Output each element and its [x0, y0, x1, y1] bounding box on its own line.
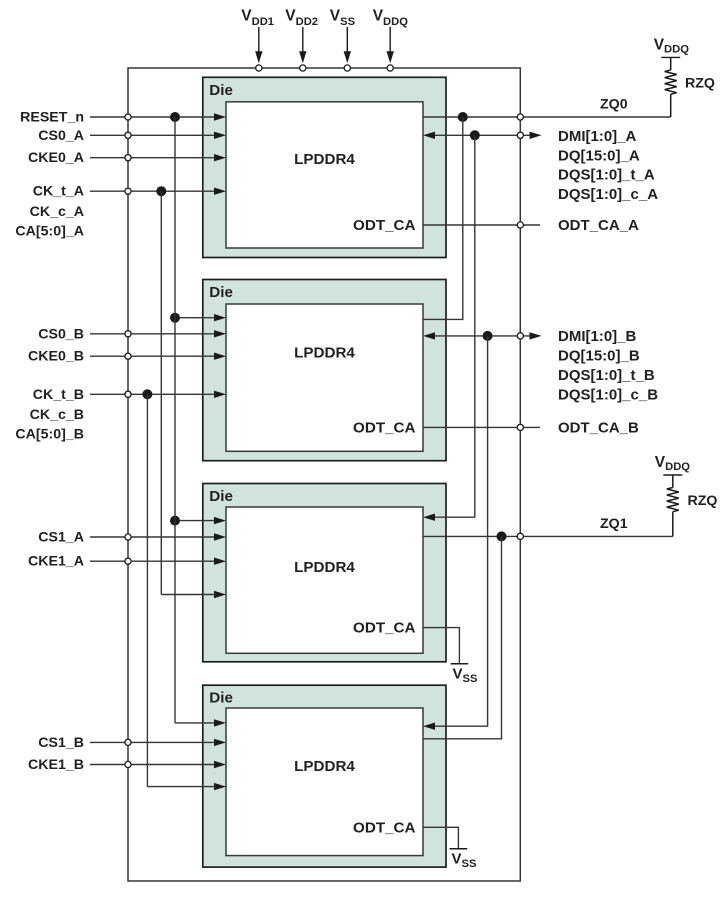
junction CK_A: [156, 186, 166, 196]
wire CKE1_B: [90, 761, 226, 768]
svg-text:LPDDR4: LPDDR4: [294, 345, 355, 362]
svg-text:RZQ: RZQ: [688, 493, 718, 509]
pin CS0_B: [125, 331, 131, 337]
svg-text:ODT_CA: ODT_CA: [353, 217, 415, 234]
wire DQ_B vertical to die 4: [423, 336, 488, 730]
LPDDR4 chip U4: [226, 708, 423, 856]
svg-text:ODT_CA_B: ODT_CA_B: [558, 419, 639, 436]
svg-text:CKE1_B: CKE1_B: [28, 757, 84, 773]
wire CS0_B: [90, 330, 226, 337]
wire DQ_A vertical to die 3: [423, 135, 475, 521]
svg-text:VSS: VSS: [330, 8, 356, 29]
svg-text:VSS: VSS: [452, 851, 477, 870]
wire ZQ1 vertical to die 4: [423, 536, 502, 738]
svg-text:VDD2: VDD2: [285, 8, 318, 29]
wire ZQ1 net: [423, 535, 673, 537]
svg-text:CKE1_A: CKE1_A: [28, 554, 84, 570]
pin RESET_n: [125, 114, 131, 120]
wire RESET_n vertical distribution: [174, 117, 176, 723]
svg-text:Die: Die: [209, 82, 233, 99]
wire CS1_A: [90, 533, 226, 540]
junction RESET_n die 1: [170, 112, 180, 122]
svg-text:CS0_B: CS0_B: [38, 326, 84, 342]
junction ZQ1: [497, 531, 507, 541]
svg-text:DQS[1:0]_t_B: DQS[1:0]_t_B: [558, 367, 655, 384]
pin CS1_A: [125, 534, 131, 540]
resistor RZQ top: [665, 57, 677, 117]
wire CK_t_A / CK_c_A / CA[5:0]_A bus: [90, 188, 226, 195]
LPDDR4 chip U2: [226, 304, 423, 451]
power VDDQ rail top right: [654, 37, 690, 58]
junction CK_B: [142, 389, 152, 399]
svg-text:Die: Die: [209, 284, 233, 301]
pin ZQ1: [517, 533, 523, 539]
wire ODT_CA_B: [423, 426, 540, 428]
svg-text:Die: Die: [209, 488, 233, 505]
svg-text:DMI[1:0]_B: DMI[1:0]_B: [558, 328, 637, 345]
svg-text:VSS: VSS: [453, 666, 478, 685]
power pin VSS: [330, 8, 356, 72]
ground VSS die 3: [451, 664, 478, 685]
ground VSS die 4: [450, 849, 477, 870]
LPDDR4 chip U1: [226, 102, 423, 248]
svg-text:ZQ1: ZQ1: [600, 516, 628, 532]
pin CK_A bus: [125, 188, 131, 194]
svg-text:ODT_CA: ODT_CA: [353, 819, 415, 836]
svg-text:LPDDR4: LPDDR4: [294, 559, 355, 576]
svg-text:CA[5:0]_B: CA[5:0]_B: [15, 427, 84, 443]
pin CS1_B: [125, 739, 131, 745]
junction RESET_n die 3: [170, 516, 180, 526]
package outline: [128, 68, 520, 881]
wire RESET_n branch into die 4: [175, 719, 226, 726]
junction RESET_n die 2: [170, 313, 180, 323]
svg-text:DQ[15:0]_B: DQ[15:0]_B: [558, 348, 640, 365]
pin DQ_A: [517, 132, 523, 138]
wire CK_A branch into die 3: [161, 591, 226, 598]
svg-text:ODT_CA_A: ODT_CA_A: [558, 217, 639, 234]
wire CS1_B: [90, 739, 226, 746]
pin CKE1_B: [125, 761, 131, 767]
power pin VDDQ: [373, 8, 409, 72]
svg-text:VDDQ: VDDQ: [373, 8, 409, 29]
wire CK_B branch into die 4: [147, 783, 226, 790]
svg-text:VDDQ: VDDQ: [655, 454, 691, 473]
wire ODT_CA_A: [423, 224, 540, 226]
svg-text:RESET_n: RESET_n: [20, 110, 84, 126]
svg-text:Die: Die: [209, 690, 233, 707]
wire CKE1_A: [90, 558, 226, 565]
pin CKE0_A: [125, 155, 131, 161]
wire CS0_A: [90, 132, 226, 139]
die 3 block: [203, 484, 446, 662]
wire ODT_CA die 4 to VSS: [423, 827, 458, 849]
svg-text:ODT_CA: ODT_CA: [353, 620, 415, 637]
svg-text:CK_c_A: CK_c_A: [30, 204, 84, 220]
power pin VDD2: [285, 8, 318, 72]
wire CK_B vertical distribution: [146, 394, 148, 786]
die 2 block: [203, 280, 446, 461]
junction DQ_A: [470, 130, 480, 140]
svg-text:CK_c_B: CK_c_B: [30, 407, 84, 423]
svg-text:ZQ0: ZQ0: [600, 97, 628, 113]
pin CS0_A: [125, 132, 131, 138]
power pin VDD1: [241, 8, 274, 72]
svg-text:ODT_CA: ODT_CA: [353, 419, 415, 436]
svg-text:LPDDR4: LPDDR4: [294, 151, 355, 168]
svg-text:CS1_A: CS1_A: [38, 530, 84, 546]
pin CK_B bus: [125, 391, 131, 397]
svg-text:CKE0_A: CKE0_A: [28, 150, 84, 166]
wire CK_t_B / CK_c_B / CA[5:0]_B bus: [90, 391, 226, 398]
pin DQ_B: [517, 333, 523, 339]
svg-text:CK_t_B: CK_t_B: [33, 387, 84, 403]
power VDDQ rail right (ZQ1): [655, 454, 691, 475]
pin ODT_CA_B: [517, 424, 523, 430]
wire DQ bus A die 1: [423, 132, 542, 139]
svg-text:VDD1: VDD1: [241, 8, 274, 29]
svg-text:RZQ: RZQ: [685, 76, 715, 92]
die 1 block: [203, 77, 446, 257]
wire RESET_n branch into die 2: [175, 314, 226, 321]
wire CKE0_B: [90, 353, 226, 360]
svg-text:CA[5:0]_A: CA[5:0]_A: [15, 224, 84, 240]
wire ZQ0 net: [423, 116, 671, 118]
svg-text:DQS[1:0]_c_A: DQS[1:0]_c_A: [558, 186, 658, 203]
svg-text:CKE0_B: CKE0_B: [28, 349, 84, 365]
pin CKE1_A: [125, 558, 131, 564]
svg-text:CS0_A: CS0_A: [38, 128, 84, 144]
svg-text:LPDDR4: LPDDR4: [294, 758, 355, 775]
wire CKE0_A: [90, 154, 226, 161]
pin CKE0_B: [125, 353, 131, 359]
svg-text:CS1_B: CS1_B: [38, 735, 84, 751]
svg-text:CK_t_A: CK_t_A: [33, 184, 84, 200]
wire ZQ0 vertical to die 2: [423, 117, 463, 319]
junction ZQ0: [458, 112, 468, 122]
pin ZQ0: [517, 114, 523, 120]
wire DQ bus B die 2: [423, 332, 542, 339]
svg-text:DQS[1:0]_c_B: DQS[1:0]_c_B: [558, 386, 658, 403]
svg-text:DMI[1:0]_A: DMI[1:0]_A: [558, 128, 637, 145]
wire RESET_n branch into die 3: [175, 517, 226, 524]
LPDDR4 chip U3: [226, 507, 423, 653]
svg-text:DQS[1:0]_t_A: DQS[1:0]_t_A: [558, 167, 655, 184]
resistor RZQ bottom: [667, 475, 679, 536]
wire ODT_CA die 3 to VSS: [423, 628, 459, 664]
pin ODT_CA_A: [517, 222, 523, 228]
junction DQ_B: [483, 331, 493, 341]
svg-text:VDDQ: VDDQ: [654, 37, 690, 56]
svg-text:DQ[15:0]_A: DQ[15:0]_A: [558, 147, 640, 164]
wire RESET_n into die 1: [90, 113, 226, 120]
die 4 block: [203, 685, 446, 867]
wire CK_A vertical distribution: [160, 191, 162, 594]
